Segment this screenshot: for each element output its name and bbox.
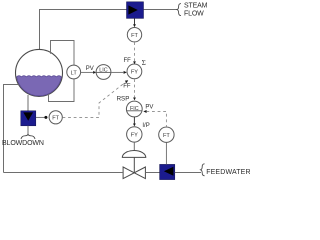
valve stem <box>133 157 135 172</box>
wire drum left side to bottom feedwater pipe <box>4 85 19 173</box>
wire below blowdown element <box>27 126 29 135</box>
dashed signal FT steam down to summer FY with arrow <box>134 42 136 61</box>
wire FY to valve actuator <box>133 142 135 151</box>
svg-text:RSP: RSP <box>117 96 130 103</box>
I/P converter FY <box>127 127 142 142</box>
wire steam line from flow element to STEAM FLOW label <box>144 9 177 11</box>
pipe valve to feedwater FE <box>145 172 159 174</box>
control valve body <box>123 167 145 179</box>
flow transmitter FT (feedwater line) <box>159 127 174 142</box>
wire drum bottom to blowdown flow element <box>27 95 29 111</box>
dashed signal summer FY to FIC (RSP) <box>134 79 136 97</box>
svg-text:FIC: FIC <box>130 106 139 112</box>
svg-text:FF: FF <box>123 83 131 89</box>
brace over BLOWDOWN <box>21 134 35 139</box>
svg-text:I/P: I/P <box>142 123 149 129</box>
flow element FE feedwater (navy square with left triangle) <box>160 164 175 179</box>
svg-text:Σ: Σ <box>142 59 146 67</box>
level transmitter LT <box>67 65 81 79</box>
svg-text:FY: FY <box>131 70 138 76</box>
summer FY <box>127 64 142 79</box>
dashed signal FW FT to summer FY (feedforward) <box>63 82 127 118</box>
wire LIC to summer FY <box>111 71 123 73</box>
wire LT top tap (drum to LT) <box>51 41 75 66</box>
blowdown flow element (navy square with down triangle) <box>21 111 36 126</box>
svg-text:LT: LT <box>71 70 78 76</box>
svg-text:PV: PV <box>86 66 94 72</box>
pipe feedwater bottom left segment <box>4 172 124 174</box>
arrow LT to LIC <box>81 71 94 73</box>
wire LT bottom tap (LT to drum) <box>49 79 75 102</box>
svg-text:LIC: LIC <box>99 68 107 74</box>
brace before STEAM FLOW <box>177 4 181 16</box>
svg-text:BLOWDOWN: BLOWDOWN <box>2 140 44 147</box>
flow transmitter FT (feedwater, at drum) <box>49 111 62 124</box>
drum water level (purple liquid with wavy surface) <box>17 76 62 96</box>
control valve actuator (diaphragm dome) <box>122 150 146 157</box>
brace before FEEDWATER <box>201 164 205 176</box>
arrow FIC to I/P converter <box>133 117 135 124</box>
svg-text:FF: FF <box>124 58 132 64</box>
svg-text:STEAM: STEAM <box>184 3 208 10</box>
arrow from steam FE down to FT <box>134 18 136 24</box>
svg-text:FT: FT <box>131 33 138 39</box>
flow controller FIC <box>126 101 142 117</box>
flow element FE steam (navy square with right triangle) <box>127 2 144 19</box>
svg-text:FT: FT <box>163 133 170 139</box>
wire steam line from drum top to steam flow element <box>40 10 127 51</box>
flow transmitter FT (steam) <box>127 28 141 42</box>
svg-text:PV: PV <box>145 105 153 111</box>
level controller LIC <box>96 65 111 80</box>
wire feedwater FT to FE <box>165 142 167 164</box>
svg-text:FY: FY <box>131 133 138 139</box>
svg-text:FEEDWATER: FEEDWATER <box>206 169 250 176</box>
boiler drum vessel <box>16 49 63 96</box>
wire blowdown FE to FT with junction dot <box>36 116 47 118</box>
svg-text:FLOW: FLOW <box>184 11 204 18</box>
svg-text:FT: FT <box>52 116 59 122</box>
dashed signal FT feedwater to FIC PV with arrow <box>143 110 146 113</box>
pipe FE to FEEDWATER label <box>175 172 201 174</box>
